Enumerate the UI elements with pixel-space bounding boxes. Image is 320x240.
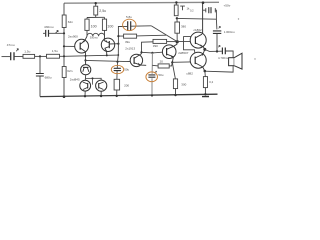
svg-text:39u: 39u (125, 40, 130, 44)
wire supply trunk (202, 3, 204, 34)
wire input lead (2, 56, 11, 58)
capacitor C5 50u (orange highlight right) (148, 75, 155, 77)
ground mark (202, 96, 209, 98)
node output (203, 48, 206, 51)
svg-text:4.700mu: 4.700mu (218, 56, 229, 60)
wire top supply rail (64, 1, 219, 4)
capacitor C1 47mu input (11, 52, 14, 60)
resistor R12 380 (175, 22, 180, 33)
svg-text:c1862: c1862 (194, 28, 203, 32)
wire VAS collector riser (142, 42, 154, 54)
wire mirror link (86, 78, 102, 84)
resistor R4 1,5k series (47, 54, 60, 58)
svg-text:200: 200 (124, 83, 129, 87)
svg-text:2,5u: 2,5u (99, 9, 106, 13)
svg-text:1.000mu: 1.000mu (224, 30, 235, 34)
wire D1 to Q5 base (177, 40, 190, 42)
node bias/cap junction (63, 32, 65, 34)
wire bias chain vertical (151, 53, 153, 96)
resistor R14 0,2 (203, 77, 207, 88)
svg-text:2sB507: 2sB507 (178, 51, 189, 55)
resistor R10 20 VAS emitter (158, 64, 169, 68)
resistor R5 2,5k tail (94, 6, 98, 15)
wire VAS base line (85, 60, 130, 61)
resistor R1 62k (upper bias) (62, 15, 66, 28)
svg-text:+50v: +50v (224, 4, 231, 8)
wire Q2 collector drop (106, 54, 108, 56)
wire feedback diagonal (151, 26, 177, 42)
svg-text:50u: 50u (158, 73, 163, 77)
capacitor C8 4700mu output (222, 48, 225, 55)
svg-text:300mu: 300mu (90, 36, 98, 40)
capacitor C2 430mu (bias decoupling) (43, 32, 64, 34)
capacitor C7 bootstrap 1000mu (215, 19, 218, 51)
speck right mid (254, 58, 255, 59)
resistor R8 39k feedback (124, 34, 137, 38)
speaker LS1 (229, 58, 235, 66)
resistor R11 300 (173, 79, 177, 89)
wire left bias trunk (63, 3, 65, 97)
svg-text:47mu: 47mu (7, 43, 15, 47)
svg-text:62n: 62n (67, 69, 72, 73)
svg-text:380: 380 (181, 24, 186, 28)
svg-text:100: 100 (91, 24, 97, 28)
svg-text:2sd845: 2sd845 (70, 77, 80, 81)
capacitor C6 top coupling (203, 10, 217, 19)
transistor Q3 2SC1913 VAS (130, 54, 142, 66)
svg-text:c882: c882 (186, 72, 193, 76)
svg-text:62n: 62n (68, 20, 73, 24)
transistor Q6 bottom output (190, 52, 206, 68)
wire Q5/Q6 vertical links (184, 36, 195, 52)
node D1 driver base node (176, 40, 179, 43)
wire bias emitter to Q6 base (172, 61, 190, 63)
capacitor C3 680mu input shunt (39, 56, 41, 96)
resistor R15 200 (114, 79, 120, 90)
wire Q2 base to feedback node (109, 43, 118, 45)
wire D2 bootstrap line (177, 17, 217, 20)
wire output to speaker (205, 50, 222, 52)
svg-text:390: 390 (153, 44, 158, 48)
wire bottom ground rail (40, 94, 218, 96)
speck right top (238, 18, 239, 19)
svg-text:300: 300 (181, 82, 186, 86)
wire feedback vertical (117, 27, 120, 62)
resistor R13 1k trimmer (174, 5, 178, 16)
wire base tee to Q1 (64, 45, 75, 47)
wire Q1 collector drop (85, 52, 87, 65)
svg-text:680u: 680u (45, 76, 52, 80)
svg-text:430mu: 430mu (44, 25, 54, 29)
capacitor C9 50u (orange highlight left) (116, 62, 119, 80)
wire long signal line (60, 55, 119, 56)
transistor Q9 mirror right (96, 80, 107, 91)
resistor R7 100 right (102, 19, 106, 30)
svg-text:20: 20 (160, 59, 164, 63)
node D2 (176, 17, 178, 19)
transistor Q1 2SA900 left diff (75, 39, 89, 53)
resistor R2 62k (lower bias) (62, 67, 66, 78)
transistor Q4 bias 2SB (162, 45, 176, 59)
svg-text:2su900: 2su900 (68, 34, 78, 38)
svg-text:0,2: 0,2 (209, 80, 213, 84)
transistor Q2 right diff (101, 38, 114, 51)
capacitor C4 5,8u feedback (orange highlight) (118, 26, 151, 27)
transistor Q5 2SC1862 top output (190, 32, 206, 48)
node rail junction left (63, 95, 66, 98)
svg-text:2x1913: 2x1913 (125, 46, 135, 50)
wire bias base line (142, 51, 163, 54)
inductor L1 300mu (87, 33, 105, 36)
svg-text:1,5u: 1,5u (52, 49, 58, 53)
node bias emitter (171, 61, 173, 63)
transistor Q7 cascode (81, 65, 91, 75)
resistor R3 1,5k input (23, 54, 35, 58)
svg-text:0,2: 0,2 (190, 9, 194, 13)
wire emitter resistor tee (87, 16, 105, 18)
svg-text:1,5u: 1,5u (24, 50, 30, 54)
transistor Q8 2SD845 mirror left (80, 80, 91, 91)
svg-text:50u: 50u (124, 68, 129, 72)
svg-text:5,8u: 5,8u (126, 15, 132, 19)
wire speaker return (205, 66, 233, 72)
node input filter junction (35, 55, 47, 57)
resistor R6 100 left (85, 19, 89, 30)
resistor R9 390 (153, 39, 167, 43)
svg-text:100: 100 (107, 24, 113, 28)
